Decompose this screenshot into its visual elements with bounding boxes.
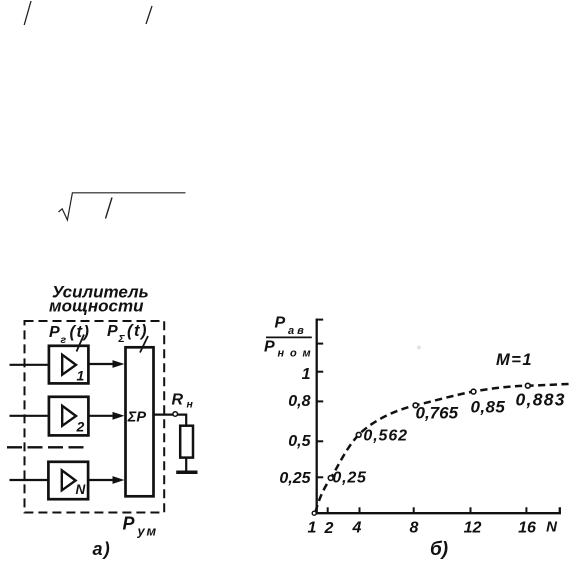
svg-text:ΣP: ΣP [127, 410, 147, 426]
input wire 1 [10, 364, 48, 366]
svg-text:а): а) [93, 539, 111, 559]
svg-text:R: R [172, 392, 184, 409]
data point N=12 [471, 389, 476, 394]
svg-text:12: 12 [464, 520, 482, 537]
svg-text:P: P [264, 339, 275, 356]
svg-text:0,5: 0,5 [288, 433, 311, 450]
svg-text:Σ: Σ [118, 333, 126, 345]
load resistor Rн [180, 426, 193, 458]
data value labels [332, 390, 565, 487]
dashed enclosure box УМ [25, 321, 165, 513]
data point N=16 [525, 383, 530, 388]
svg-text:0,765: 0,765 [416, 404, 459, 423]
ground bar [176, 471, 197, 475]
wire node to load corner [178, 415, 187, 426]
data point N=8 [413, 403, 418, 408]
stray slash mark 2 [146, 6, 152, 24]
svg-text:P: P [275, 315, 286, 332]
input wire 3 [10, 479, 48, 481]
svg-text:P: P [123, 514, 136, 534]
svg-text:0,25: 0,25 [332, 470, 367, 487]
origin node circle [312, 511, 316, 515]
x-axis [312, 507, 560, 513]
faint scan dot [417, 346, 421, 350]
leader line for Pг(t) [77, 335, 85, 352]
dashed curve [316, 384, 573, 512]
x tick labels [308, 519, 559, 538]
svg-text:мощности: мощности [49, 297, 144, 316]
label PΣ(t) [107, 322, 148, 345]
amplifier block 1 [49, 346, 89, 384]
svg-text:M=1: M=1 [496, 351, 533, 369]
label Pум [123, 514, 158, 539]
svg-text:н: н [187, 399, 194, 411]
summator block ΣP [126, 347, 154, 496]
y-axis fraction label Pав/Pном [264, 315, 316, 360]
svg-text:ном: ном [278, 348, 317, 360]
square-root radical fragment [59, 193, 186, 220]
y-axis [316, 319, 318, 515]
svg-text:ум: ум [137, 524, 158, 539]
svg-text:(t): (t) [70, 323, 91, 341]
svg-text:16: 16 [518, 520, 536, 537]
svg-text:P: P [49, 324, 60, 341]
svg-text:8: 8 [410, 520, 419, 537]
data point N=4 [356, 432, 361, 437]
svg-text:г: г [61, 334, 67, 346]
svg-text:0,85: 0,85 [471, 398, 506, 417]
svg-text:1: 1 [77, 368, 85, 384]
svg-text:P: P [107, 323, 118, 340]
title: Усилитель мощности [49, 283, 149, 316]
svg-text:4: 4 [352, 520, 362, 537]
node circle [173, 412, 178, 417]
svg-text:2: 2 [76, 419, 85, 435]
label Pг(t) [49, 323, 90, 346]
x-axis ticks [328, 507, 527, 513]
wire ampN to summator with arrowhead [88, 476, 124, 484]
y tick labels [279, 366, 311, 487]
wire amp1 to summator with arrowhead [88, 360, 124, 368]
svg-text:N: N [76, 482, 86, 497]
data point N=2 [328, 476, 333, 481]
svg-text:0,25: 0,25 [279, 470, 311, 487]
svg-text:1: 1 [308, 520, 317, 537]
svg-text:(t): (t) [127, 322, 148, 340]
svg-text:0,8: 0,8 [288, 393, 310, 410]
y-axis ticks [317, 320, 324, 478]
stray slash mark 1 [24, 1, 31, 25]
amplifier block 2 [49, 397, 89, 436]
leader line for PΣ(t) [140, 336, 148, 353]
dashed continuation separator [7, 446, 88, 448]
svg-text:N: N [546, 519, 558, 536]
wire resistor to ground [185, 458, 187, 471]
label Rн [172, 392, 194, 411]
input wire 2 [10, 415, 48, 417]
svg-text:б): б) [430, 539, 448, 560]
svg-text:0,562: 0,562 [363, 428, 408, 445]
slash inside radical [106, 198, 113, 219]
svg-text:0,883: 0,883 [516, 390, 566, 410]
svg-text:1: 1 [302, 366, 311, 383]
svg-text:2: 2 [324, 520, 334, 537]
amplifier block N [48, 462, 88, 499]
svg-text:ав: ав [288, 325, 307, 337]
output wire to load node [154, 414, 174, 416]
wire amp2 to summator with arrowhead [88, 412, 124, 420]
